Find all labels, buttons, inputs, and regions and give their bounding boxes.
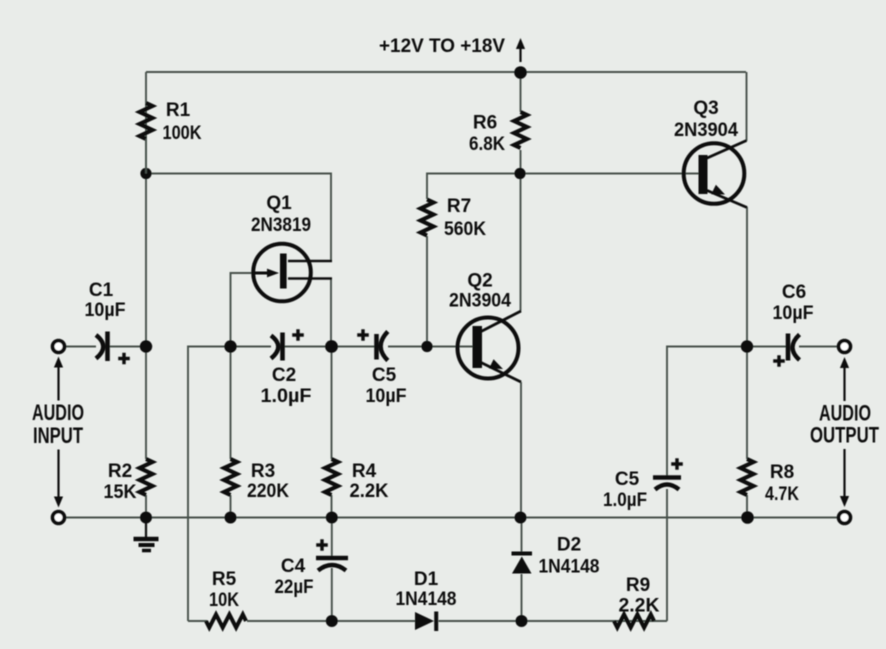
svg-text:Q1: Q1 xyxy=(266,193,292,214)
input terminal top xyxy=(53,341,65,353)
wire Q2 collector riser xyxy=(520,174,522,312)
wire node to C2 xyxy=(231,346,272,348)
input terminal bottom xyxy=(53,512,65,524)
input arrow up xyxy=(57,368,59,401)
svg-text:R4: R4 xyxy=(352,461,377,482)
svg-text:C5: C5 xyxy=(615,469,640,490)
capacitor C2 xyxy=(271,336,278,359)
wire R7 node to Q2 base xyxy=(427,346,474,348)
wire node to C6 xyxy=(747,346,786,348)
node ground rail R2 xyxy=(140,512,152,524)
Q1 source stub xyxy=(288,277,332,280)
output terminal top xyxy=(839,341,851,353)
capacitor C5 (10uF) xyxy=(374,334,379,360)
svg-text:100K: 100K xyxy=(163,123,202,144)
svg-text:2.2K: 2.2K xyxy=(350,481,389,502)
svg-text:OUTPUT: OUTPUT xyxy=(810,423,879,448)
svg-text:22µF: 22µF xyxy=(275,577,314,598)
svg-text:C6: C6 xyxy=(782,282,806,303)
node bottom row C4 xyxy=(326,615,338,627)
wire bottom ground rail xyxy=(58,517,845,519)
wire bottom feedback row mid2 xyxy=(439,620,522,622)
transistor Q1 (JFET 2N3819) xyxy=(253,244,311,302)
node Q3 emitter / R8 / C6 xyxy=(741,340,753,352)
resistor R3 xyxy=(224,459,237,495)
svg-text:2N3904: 2N3904 xyxy=(674,120,738,141)
wire left vertical main (R1 branch) xyxy=(145,72,147,459)
svg-text:D1: D1 xyxy=(414,569,439,590)
node ground rail R4/C4 xyxy=(326,512,338,524)
power supply arrow xyxy=(519,49,521,62)
wire C6 to output xyxy=(799,346,839,348)
wire R7 bottom lead xyxy=(426,236,428,347)
ground xyxy=(145,518,147,538)
svg-text:10µF: 10µF xyxy=(773,303,814,324)
svg-text:R1: R1 xyxy=(166,100,191,121)
svg-text:2.2K: 2.2K xyxy=(619,596,660,617)
node ground rail R8 xyxy=(741,511,754,524)
wire mid-left horizontal to Q1 drain xyxy=(146,174,331,262)
wire R8 bottom lead xyxy=(746,495,748,518)
svg-text:R8: R8 xyxy=(770,462,794,483)
wire R6 top lead xyxy=(520,72,522,112)
svg-text:+12V TO +18V: +12V TO +18V xyxy=(379,35,505,57)
wire top supply rail xyxy=(146,71,746,73)
svg-text:C5: C5 xyxy=(372,365,397,386)
transistor Q2 (2N3904) xyxy=(458,318,519,379)
wire bottom feedback row left xyxy=(188,620,207,622)
svg-text:R3: R3 xyxy=(251,461,275,482)
wire feedback corner to gate node xyxy=(188,347,231,622)
wire C5b branch xyxy=(667,347,747,477)
svg-text:15K: 15K xyxy=(104,482,137,503)
wire R3 leads xyxy=(230,347,232,460)
svg-text:220K: 220K xyxy=(247,481,289,502)
node ground rail R3 xyxy=(225,512,237,524)
resistor R1 xyxy=(140,103,153,139)
node C2 / C5 / R4 / Q1 source xyxy=(325,340,338,353)
wire C1 to node xyxy=(109,346,146,348)
svg-text:10µF: 10µF xyxy=(85,300,126,321)
wire D2 bottom lead xyxy=(521,574,523,621)
wire node to C5 plate xyxy=(332,346,376,348)
wire Q2 emitter drop xyxy=(520,382,522,518)
svg-text:1N4148: 1N4148 xyxy=(539,557,600,578)
svg-text:C2: C2 xyxy=(272,365,296,386)
wire R8 top lead xyxy=(746,347,748,460)
svg-text:560K: 560K xyxy=(444,219,486,240)
svg-text:1N4148: 1N4148 xyxy=(396,589,457,610)
svg-text:4.7K: 4.7K xyxy=(765,484,799,505)
capacitor C5 (1.0uF) xyxy=(653,475,681,480)
wire Q1 gate down to C2 node xyxy=(231,273,254,347)
svg-text:2N3819: 2N3819 xyxy=(251,215,311,236)
wire R4 leads xyxy=(331,347,333,460)
svg-text:D2: D2 xyxy=(557,535,581,556)
diode D1 xyxy=(415,612,434,630)
svg-text:10K: 10K xyxy=(209,590,239,611)
node R6 / R7 / Q3 base xyxy=(514,168,525,179)
resistor R6 xyxy=(514,112,527,148)
node R7 / Q2 base xyxy=(421,341,432,352)
wire R6 bottom lead xyxy=(520,150,522,174)
resistor R9 xyxy=(614,615,654,628)
wire Q1 source to C2/C5 node xyxy=(330,279,332,347)
svg-text:AUDIO: AUDIO xyxy=(32,400,84,425)
node gate / C2 / R3 xyxy=(224,340,236,352)
wire D2 top lead xyxy=(521,518,523,553)
svg-text:R9: R9 xyxy=(626,575,650,596)
capacitor C1 xyxy=(96,335,103,359)
svg-text:R6: R6 xyxy=(473,113,497,134)
svg-text:R2: R2 xyxy=(108,461,132,482)
output arrow down xyxy=(843,449,845,496)
svg-text:1.0µF: 1.0µF xyxy=(261,386,312,407)
capacitor C4 xyxy=(316,556,348,561)
input arrow down xyxy=(57,450,59,497)
wire C2 to node xyxy=(285,346,332,348)
svg-text:C4: C4 xyxy=(281,556,306,577)
wire input to C1 xyxy=(60,346,96,348)
wire C4 branch xyxy=(331,518,333,557)
output arrow up xyxy=(843,368,845,401)
svg-text:2N3904: 2N3904 xyxy=(449,291,511,312)
svg-text:R5: R5 xyxy=(212,569,237,590)
transistor Q3 (2N3904) xyxy=(684,143,745,204)
output terminal bottom xyxy=(839,512,851,524)
wire Q3 collector riser xyxy=(746,72,748,141)
wire R2 bottom lead xyxy=(145,495,147,518)
svg-text:Q3: Q3 xyxy=(693,98,718,119)
wire C5 to R7 node xyxy=(388,346,427,348)
resistor R5 xyxy=(206,615,246,628)
wire Q3 emitter drop xyxy=(746,207,748,347)
node R1 bottom / drain line xyxy=(140,168,151,179)
svg-text:R7: R7 xyxy=(447,196,471,217)
resistor R2 xyxy=(140,459,153,495)
resistor R8 xyxy=(741,459,754,495)
svg-text:6.8K: 6.8K xyxy=(469,134,505,155)
node bottom row D1 / D2 xyxy=(516,615,528,627)
wire mid-right horizontal (R7/R6/Q3 base) xyxy=(427,174,699,200)
node supply rail / R6 xyxy=(514,66,527,79)
resistor R4 xyxy=(325,459,338,495)
node ground rail Q2 emitter / D2 xyxy=(515,512,527,524)
diode D2 xyxy=(512,557,532,574)
svg-text:10µF: 10µF xyxy=(366,386,407,407)
svg-text:INPUT: INPUT xyxy=(33,423,83,448)
wire bottom feedback row mid1 xyxy=(247,620,416,622)
svg-text:1.0µF: 1.0µF xyxy=(603,490,647,511)
resistor R7 xyxy=(421,200,434,236)
node C1 / R1 / R2 xyxy=(140,340,152,352)
capacitor C6 xyxy=(786,334,791,361)
wire bottom feedback row right xyxy=(522,620,668,622)
svg-text:Q2: Q2 xyxy=(467,271,492,292)
svg-text:C1: C1 xyxy=(89,280,114,301)
Q1 drain stub xyxy=(288,260,332,263)
